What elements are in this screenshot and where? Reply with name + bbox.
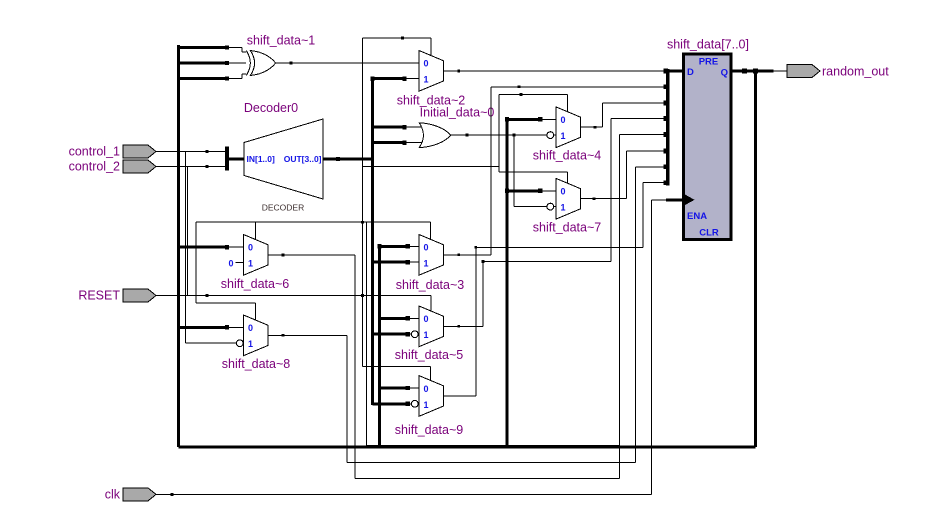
- wire select for mux shift_data~9: [363, 365, 431, 367]
- wire up to y=247.3: [475, 247, 477, 396]
- wire select drop into mux shift_data~3: [429, 222, 431, 239]
- wire bus tap to OR gate input 1: [373, 126, 405, 129]
- node D input collector bus bar: [666, 69, 669, 186]
- svg-text:0: 0: [424, 314, 429, 324]
- wire select for mux shift_data~7: [499, 171, 567, 173]
- svg-text:1: 1: [424, 400, 429, 410]
- wire select for mux shift_data~8: [196, 302, 256, 304]
- svg-text:shift_data[7..0]: shift_data[7..0]: [667, 38, 749, 52]
- wire D bit2 horizontal: [603, 102, 668, 104]
- wire vertical from control_1 down to mux shift_data~8 input 1: [185, 152, 187, 344]
- wire D bus into register: [668, 70, 684, 73]
- svg-text:control_1: control_1: [69, 145, 120, 159]
- input pin clk: [123, 488, 156, 501]
- wire Q output: [731, 70, 772, 73]
- wire control_1 to bus merge: [156, 151, 226, 153]
- svg-text:OUT[3..0]: OUT[3..0]: [284, 154, 322, 164]
- wire bus tap to XOR input 1: [179, 46, 228, 49]
- wire vertical x=366.6: [366, 222, 368, 445]
- mux shift_data~7: [556, 178, 581, 219]
- svg-text:0: 0: [424, 243, 429, 253]
- wire bus tap to mux shift_data~7 input 0: [507, 189, 540, 192]
- node bus merge bar: [225, 147, 229, 171]
- wire mux shift_data~5 output: [444, 325, 483, 327]
- svg-text:shift_data~3: shift_data~3: [396, 278, 465, 292]
- wire decoder bus vertical: [371, 79, 374, 405]
- wire vertical from control_2 line down: [187, 167, 189, 296]
- wire bus tap to mux shift_data~5 input 1: [373, 333, 408, 336]
- wire bus tap to mux shift_data~9 input 0: [380, 387, 408, 390]
- bubble mux shift_data~9 input 1: [408, 403, 412, 405]
- or gate Initial_data~0: [419, 123, 451, 148]
- wire D bit6 horizontal: [635, 166, 667, 168]
- wire Initial_data~0 down to mux shift_data~7 input 1: [513, 135, 515, 207]
- wire merged bus to decoder IN: [229, 158, 244, 161]
- svg-text:Decoder0: Decoder0: [244, 101, 298, 115]
- wire mux shift_data~7 output: [581, 198, 627, 200]
- wire up to D bit6: [634, 167, 636, 463]
- svg-text:shift_data~7: shift_data~7: [533, 221, 602, 235]
- wire up to D bit3: [610, 119, 612, 262]
- wire up to y=261.4: [482, 261, 484, 326]
- svg-text:DECODER: DECODER: [262, 203, 305, 213]
- xor gate shift_data~1: [246, 51, 250, 76]
- bubble mux shift_data~8 input 1: [236, 340, 243, 347]
- svg-text:D: D: [687, 67, 694, 78]
- svg-text:0: 0: [248, 323, 253, 333]
- svg-text:IN[1..0]: IN[1..0]: [247, 154, 276, 164]
- svg-text:0: 0: [424, 384, 429, 394]
- wire Q feedback bus bottom horizontal: [179, 446, 756, 449]
- svg-text:shift_data~5: shift_data~5: [395, 348, 464, 362]
- wire RESET net: [156, 295, 431, 297]
- wire control_2 to bus merge: [156, 166, 226, 168]
- wire mux shift_data~8 output: [268, 334, 347, 336]
- wire D bit3 horizontal: [611, 118, 668, 120]
- svg-text:1: 1: [561, 203, 566, 213]
- svg-text:ENA: ENA: [687, 211, 707, 222]
- wire select drop into mux shift_data~2: [430, 38, 432, 56]
- svg-text:0: 0: [561, 187, 566, 197]
- wire bus tap to mux shift_data~3 input 0: [380, 245, 408, 248]
- svg-text:1: 1: [248, 259, 253, 269]
- wire mux shift_data~9 output: [444, 395, 476, 397]
- svg-text:shift_data~1: shift_data~1: [247, 34, 316, 48]
- mux shift_data~4: [556, 107, 581, 148]
- input pin control_1: [123, 145, 156, 158]
- wire select vertical x=362.6: [362, 38, 364, 366]
- wire select drop into mux shift_data~7: [566, 172, 568, 183]
- bubble mux shift_data~7 input 1: [547, 203, 554, 210]
- wire line A below box: [347, 462, 635, 464]
- wire bus tap to mux shift_data~3 input 1: [373, 261, 408, 264]
- wire up to D bit5: [626, 151, 628, 199]
- wire up to D bit7: [642, 183, 644, 248]
- svg-text:random_out: random_out: [822, 65, 889, 79]
- wire clk to register: [651, 199, 666, 201]
- wire bus tap to OR gate input 2: [373, 141, 405, 144]
- svg-text:shift_data~6: shift_data~6: [221, 277, 290, 291]
- wire select drop into mux shift_data~8: [255, 303, 257, 320]
- svg-text:control_2: control_2: [69, 160, 120, 174]
- wire select vertical x=196: [195, 222, 197, 303]
- wire Q feedback bus left vertical: [177, 45, 180, 447]
- wire bus tap to mux shift_data~2 input 1: [373, 77, 405, 80]
- wire bus tap to mux shift_data~9 input 1: [373, 402, 408, 405]
- svg-text:1: 1: [561, 131, 566, 141]
- mux shift_data~9: [419, 376, 444, 417]
- wire mux shift_data~4 output: [581, 126, 603, 128]
- mux shift_data~3: [419, 235, 444, 276]
- output pin random_out: [787, 65, 820, 78]
- wire Initial_data~0 output to mux shift_data~4 input 1: [451, 134, 547, 136]
- wire bus tap to mux shift_data~6 input 0: [179, 246, 228, 249]
- svg-text:1: 1: [424, 259, 429, 269]
- wire select vertical x=499: [498, 94, 500, 171]
- wire mux shift_data~2 output to register D bit0: [444, 70, 668, 72]
- wire select drop into mux shift_data~4: [566, 94, 568, 111]
- wire bus vertical x507: [506, 119, 509, 445]
- svg-text:1: 1: [248, 339, 253, 349]
- wire D bit4 horizontal: [619, 134, 667, 136]
- wire decoder OUT bus: [323, 158, 373, 161]
- wire select branch y=166.4: [363, 165, 499, 167]
- input pin control_2: [123, 160, 156, 173]
- svg-text:PRE: PRE: [699, 57, 719, 68]
- wire clk net: [156, 493, 651, 495]
- wire up to D bit1: [490, 87, 492, 255]
- wire bus tap to mux shift_data~4 input 0: [507, 118, 540, 121]
- mux shift_data~8: [244, 315, 269, 356]
- svg-text:0: 0: [228, 259, 233, 269]
- svg-text:shift_data~8: shift_data~8: [222, 357, 291, 371]
- register shift_data[7..0]: [684, 54, 732, 240]
- mux shift_data~6: [244, 235, 269, 276]
- svg-text:Initial_data~0: Initial_data~0: [420, 106, 495, 120]
- wire select drop into mux shift_data~9: [429, 366, 431, 380]
- wire horizontal above box bottom: [367, 445, 620, 447]
- svg-text:0: 0: [561, 115, 566, 125]
- wire bus vertical x379: [378, 246, 381, 447]
- wire select loop top for mux shift_data~2: [363, 37, 431, 39]
- mux shift_data~2: [419, 51, 444, 92]
- wire down to line C: [354, 255, 356, 479]
- svg-text:1: 1: [424, 75, 429, 85]
- node register clock arrow: [684, 194, 695, 206]
- decoder U-Decoder0: [244, 119, 323, 199]
- mux shift_data~5: [419, 306, 444, 347]
- wire D bit1 horizontal: [491, 86, 668, 88]
- wire XOR output to mux shift_data~2 input 0: [275, 62, 419, 64]
- wire select top for mux shift_data~4: [499, 93, 567, 95]
- wire across y=247.3: [476, 246, 643, 248]
- svg-text:Q: Q: [721, 68, 728, 79]
- wire D bit7 horizontal: [643, 182, 668, 184]
- svg-text:0: 0: [248, 243, 253, 253]
- wire mux shift_data~6 output: [268, 254, 355, 256]
- wire bus tap to mux shift_data~5 input 0: [380, 317, 408, 320]
- wire across y=261.4: [483, 260, 611, 262]
- svg-text:shift_data~9: shift_data~9: [395, 423, 464, 437]
- wire mux shift_data~3 output: [444, 254, 491, 256]
- wire clk vertical up: [650, 200, 652, 495]
- wire up to D bit2: [602, 103, 604, 127]
- svg-text:shift_data~4: shift_data~4: [533, 149, 602, 163]
- bubble mux shift_data~5 input 1: [408, 333, 412, 335]
- wire select drop into mux shift_data~5: [430, 296, 432, 312]
- bubble mux shift_data~4 input 1: [547, 132, 554, 139]
- svg-text:RESET: RESET: [78, 289, 120, 303]
- input pin RESET: [123, 289, 156, 302]
- wire D bit5 horizontal: [627, 150, 668, 152]
- wire Q feedback bus right vertical: [754, 71, 757, 447]
- svg-text:CLR: CLR: [699, 228, 719, 239]
- svg-text:clk: clk: [105, 487, 121, 501]
- wire line C below box: [355, 478, 619, 480]
- wire select drop into mux shift_data~6: [255, 222, 257, 239]
- svg-text:0: 0: [424, 59, 429, 69]
- wire bus tap to mux shift_data~8 input 0: [179, 326, 228, 329]
- svg-text:1: 1: [424, 330, 429, 340]
- wire select branch y=222.2: [196, 221, 430, 223]
- wire down to line A: [346, 335, 348, 462]
- wire up to D bit4: [618, 135, 620, 479]
- wire bus tap to XOR input 3: [179, 77, 228, 80]
- wire bus tap to XOR input 2: [179, 62, 228, 65]
